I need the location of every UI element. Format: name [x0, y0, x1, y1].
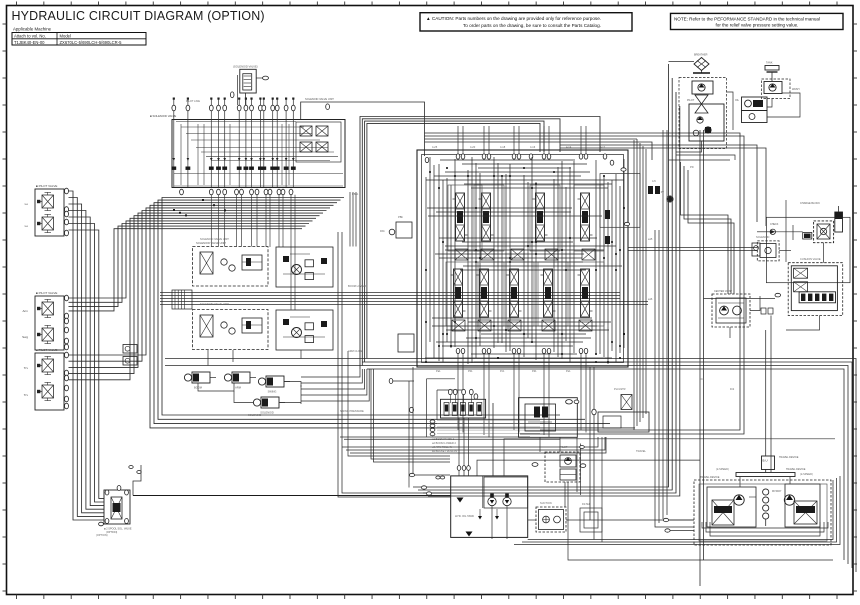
svg-text:(OPTION): (OPTION)	[106, 531, 117, 534]
check valve CK1	[770, 223, 779, 235]
svg-text:SWING: SWING	[268, 390, 277, 394]
svg-text:ARM CLOSE: ARM CLOSE	[348, 349, 364, 353]
relief valve RV1	[814, 221, 834, 243]
svg-text:Applicable Machine: Applicable Machine	[13, 27, 52, 32]
svg-text:Swg: Swg	[22, 335, 28, 339]
svg-text:PILOT: PILOT	[687, 99, 695, 102]
svg-text:PT: PT	[661, 191, 665, 194]
reducing valve RD1	[757, 241, 779, 261]
plug PT1	[661, 191, 674, 203]
wire bundle: CV top stubs	[458, 126, 586, 154]
return filter box RF1	[580, 508, 602, 532]
battery box BU	[762, 456, 799, 473]
svg-text:NOTE: Refer to the PEFORMANCE: NOTE: Refer to the PEFORMANCE STANDARD i…	[674, 16, 820, 21]
svg-text:SOLENOID: SOLENOID	[260, 411, 274, 415]
wire bundle: upper right corners	[425, 133, 767, 434]
svg-text:FILTER: FILTER	[582, 502, 591, 506]
svg-text:T1JBK40-EN-00: T1JBK40-EN-00	[14, 40, 45, 45]
svg-text:PBb: PBb	[398, 215, 403, 219]
svg-text:4-20: 4-20	[470, 145, 476, 149]
svg-text:SOLENOID VALVE UNIT: SOLENOID VALVE UNIT	[200, 237, 229, 241]
svg-text:CHECK: CHECK	[770, 223, 779, 226]
fitting block FB2	[123, 357, 137, 366]
svg-text:BOOM LOWER: BOOM LOWER	[348, 284, 366, 288]
svg-text:(SOLENOID VALVE): (SOLENOID VALVE)	[233, 65, 258, 69]
caution box	[420, 13, 632, 31]
remote control valve RCV1	[193, 241, 269, 286]
svg-text:PILOT LINE: PILOT LINE	[186, 99, 200, 103]
accumulator A1	[184, 372, 216, 390]
right cluster enclosure	[766, 217, 850, 282]
svg-text:TRAVEL DEVICE: TRAVEL DEVICE	[700, 476, 720, 479]
svg-text:for the relief valve pressure: for the relief valve pressure setting va…	[716, 23, 799, 28]
svg-text:B.U: B.U	[762, 459, 767, 463]
wire: pump circuit links	[669, 62, 801, 161]
wire: travel pilot drops	[740, 316, 790, 488]
wire: SVM2 risers	[410, 379, 466, 437]
travel motor TM1	[694, 476, 831, 545]
svg-text:a16: a16	[648, 297, 653, 301]
fan motor M1	[735, 97, 767, 123]
wire bundle: shuttle bus	[160, 290, 648, 309]
svg-text:TRAVEL DEVICE: TRAVEL DEVICE	[779, 456, 799, 459]
solenoid block SB1	[803, 233, 812, 240]
svg-text:(2-SPEED): (2-SPEED)	[716, 467, 729, 471]
swing motor SM1	[712, 290, 750, 327]
svg-text:■ PILOT VALVE: ■ PILOT VALVE	[36, 291, 57, 295]
pressure sensor PS1	[752, 243, 760, 256]
wire bundle: tank bottom bus	[514, 476, 840, 545]
svg-text:HYD. OIL TANK: HYD. OIL TANK	[455, 514, 474, 518]
wire bundle: drain bus	[342, 130, 694, 542]
svg-text:CHARGE BLOCK: CHARGE BLOCK	[800, 202, 820, 205]
svg-text:■ PILOT VALVE: ■ PILOT VALVE	[36, 348, 57, 352]
wire bundle: right return loop	[413, 64, 680, 496]
solenoid valve manifold SVM1	[150, 98, 345, 311]
connector marks	[129, 466, 141, 474]
svg-text:TRAVEL DEVICE: TRAVEL DEVICE	[786, 468, 806, 471]
svg-text:Lo: Lo	[25, 224, 29, 228]
note box	[671, 13, 844, 29]
svg-text:4-25: 4-25	[432, 145, 438, 149]
drain filter DF1	[536, 507, 566, 532]
brake valve block BV1	[704, 263, 843, 316]
wire bundle: CV bottom stubs	[458, 354, 586, 438]
svg-text:SOLENOID VALVE UNIT: SOLENOID VALVE UNIT	[200, 302, 229, 306]
pilot pump P1	[692, 81, 713, 113]
wire bundle: main pilot bus top	[360, 117, 600, 370]
svg-text:Pc1: Pc1	[500, 369, 505, 373]
svg-text:PILOT: PILOT	[560, 445, 568, 449]
wire: right cluster links	[730, 200, 824, 338]
svg-text:Pa1: Pa1	[436, 369, 441, 373]
wire bundle: mid return bus	[165, 350, 856, 572]
wire bundle: pilot lines left staircase	[69, 198, 636, 428]
air breather F1	[693, 54, 710, 74]
wire bundle: PV1 drop lines	[69, 191, 105, 520]
svg-text:■ PILOT VALVE: ■ PILOT VALVE	[36, 184, 57, 188]
svg-text:Model: Model	[60, 33, 71, 38]
title	[12, 9, 265, 23]
svg-text:PBp1: PBp1	[352, 192, 359, 196]
svg-text:TANK: TANK	[766, 62, 773, 65]
svg-text:PH.GSTR: PH.GSTR	[614, 387, 626, 391]
wire bundle: lower interconnect	[338, 192, 835, 560]
solenoid valve manifold SVM2	[430, 389, 540, 436]
accumulator A2	[224, 372, 256, 390]
svg-text:BREATHER: BREATHER	[694, 54, 708, 57]
svg-text:To order parts on the drawing,: To order parts on the drawing, be sure t…	[463, 23, 601, 28]
svg-text:4-16: 4-16	[530, 145, 536, 149]
wire bundle: right drop pair	[700, 130, 704, 586]
svg-text:TRAVEL: TRAVEL	[636, 449, 646, 453]
pilot shut-off valve PSV	[519, 398, 597, 438]
svg-text:4-14: 4-14	[566, 145, 572, 149]
pilot valve PV3	[24, 348, 69, 410]
travel motor TM2	[784, 468, 820, 527]
reserve tank T1	[765, 62, 779, 82]
aux block AB1	[598, 412, 649, 432]
svg-text:WASH: WASH	[792, 88, 800, 91]
svg-text:Pe1: Pe1	[566, 369, 571, 373]
rotary joint stack	[763, 489, 782, 526]
svg-text:a3 ARM ROLL-IN: a3 ARM ROLL-IN	[432, 445, 452, 449]
pressure reducing valve PRV2	[276, 310, 333, 350]
svg-text:a1 BOOM RAISE 1: a1 BOOM RAISE 1	[432, 437, 455, 441]
svg-text:(OPTION): (OPTION)	[96, 533, 108, 537]
wire bundle: right step-down lines	[628, 139, 757, 430]
2-spool solenoid valve SSV	[99, 486, 132, 535]
svg-text:a4 BUCKET ROLL-IN: a4 BUCKET ROLL-IN	[432, 449, 457, 453]
svg-text:PD: PD	[690, 165, 694, 169]
svg-text:a2 BOOM LOWER 2: a2 BOOM LOWER 2	[432, 441, 456, 445]
fitting block FB1	[123, 345, 137, 354]
wire: accumulator links	[198, 369, 369, 404]
svg-text:4-12: 4-12	[600, 145, 606, 149]
svg-text:(2-SPEED): (2-SPEED)	[800, 472, 813, 476]
svg-text:▲ CAUTION: Parts numbers on th: ▲ CAUTION: Parts numbers on the drawing …	[426, 16, 601, 21]
svg-text:SUCTION: SUCTION	[540, 501, 552, 505]
svg-text:CENTER JOINT: CENTER JOINT	[714, 290, 733, 293]
wire bundle: travel feed	[663, 484, 828, 541]
accumulator A4	[253, 397, 285, 415]
wash pump P3	[762, 79, 800, 99]
svg-text:ROTARY: ROTARY	[772, 490, 782, 493]
title block table	[12, 27, 146, 45]
pressure reducing valve PRV1	[276, 247, 333, 287]
svg-text:SWING PRESSURE: SWING PRESSURE	[340, 409, 364, 413]
svg-text:Lo: Lo	[25, 202, 29, 206]
valve PH1	[621, 395, 632, 410]
pilot valve PV1	[25, 184, 69, 236]
svg-text:4-18: 4-18	[500, 145, 506, 149]
svg-text:PAb: PAb	[380, 229, 385, 233]
svg-text:Pd1: Pd1	[532, 369, 537, 373]
svg-text:SOLENOID: SOLENOID	[756, 235, 770, 239]
solenoid valve SV1 (pilot unit)	[230, 65, 268, 106]
svg-text:SOLENOID: SOLENOID	[248, 413, 262, 417]
control valve CV main block	[417, 150, 660, 367]
svg-text:CUSHION VALVE: CUSHION VALVE	[800, 257, 821, 261]
pilot valve PV2	[22, 291, 68, 350]
accumulator A3	[258, 376, 290, 394]
svg-text:■ SOLENOID VALVE: ■ SOLENOID VALVE	[150, 114, 176, 118]
svg-text:SOLENOID VALVE UNIT: SOLENOID VALVE UNIT	[196, 241, 226, 245]
svg-text:ZX670LC-5/690LCH-5/690LCR-5: ZX670LC-5/690LCH-5/690LCR-5	[60, 40, 123, 45]
hydraulic oil tank	[451, 476, 528, 538]
svg-text:Attach to vol. No.: Attach to vol. No.	[14, 33, 46, 38]
junction dots on staircase	[173, 199, 226, 216]
main pump unit P2	[679, 78, 727, 149]
wire: drain line to tank	[133, 465, 451, 496]
svg-text:4-5: 4-5	[652, 179, 656, 183]
svg-text:OIL: OIL	[735, 99, 740, 102]
misc tiny labels	[96, 99, 821, 537]
pilot filter PF1	[532, 452, 586, 482]
svg-text:Arm: Arm	[23, 309, 29, 313]
check valve block CB1	[389, 222, 414, 384]
svg-text:a15: a15	[648, 237, 653, 241]
svg-text:Trv: Trv	[24, 393, 29, 397]
svg-text:Dr1: Dr1	[700, 377, 705, 381]
svg-text:Trv: Trv	[24, 366, 29, 370]
svg-text:Dr2: Dr2	[730, 387, 735, 391]
remote control valve RCV2	[193, 310, 269, 350]
accumulator A5	[800, 202, 843, 232]
svg-text:ARM: ARM	[235, 386, 241, 390]
svg-text:HYDRAULIC CIRCUIT DIAGRAM (OPT: HYDRAULIC CIRCUIT DIAGRAM (OPTION)	[12, 9, 265, 23]
travel rail	[736, 473, 795, 477]
svg-text:SOLENOID VALVE UNIT: SOLENOID VALVE UNIT	[305, 97, 334, 101]
wire: manifold leader	[301, 97, 425, 156]
svg-text:Pb1: Pb1	[468, 369, 473, 373]
